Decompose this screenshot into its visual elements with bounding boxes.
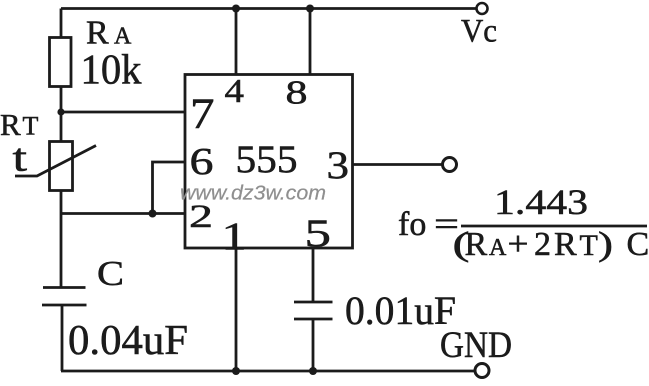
svg-text:R: R <box>86 15 109 52</box>
svg-text:5: 5 <box>305 212 332 255</box>
svg-text:www.dz3w.com: www.dz3w.com <box>180 183 326 205</box>
svg-text:GND: GND <box>440 325 512 366</box>
svg-text:1.443: 1.443 <box>494 182 588 222</box>
svg-text:Vc: Vc <box>461 14 497 50</box>
svg-text:8: 8 <box>286 75 308 112</box>
svg-text:+: + <box>508 226 529 263</box>
svg-text:10k: 10k <box>81 48 142 94</box>
svg-text:): ) <box>598 226 613 263</box>
svg-text:2: 2 <box>534 226 551 263</box>
svg-text:R: R <box>554 226 577 263</box>
svg-text:C: C <box>97 254 124 293</box>
svg-text:7: 7 <box>190 91 215 138</box>
svg-text:4: 4 <box>225 73 245 110</box>
svg-text:fo: fo <box>398 206 426 243</box>
svg-text:3: 3 <box>327 144 350 187</box>
svg-text:t: t <box>13 137 28 180</box>
svg-text:0.04uF: 0.04uF <box>68 318 188 364</box>
svg-text:A: A <box>489 235 507 261</box>
svg-text:T: T <box>580 229 598 262</box>
svg-text:555: 555 <box>236 138 298 181</box>
svg-text:R: R <box>465 226 488 263</box>
svg-text:A: A <box>114 24 132 50</box>
svg-text:C: C <box>627 226 649 263</box>
svg-text:1: 1 <box>222 215 247 258</box>
svg-text:6: 6 <box>190 141 214 183</box>
